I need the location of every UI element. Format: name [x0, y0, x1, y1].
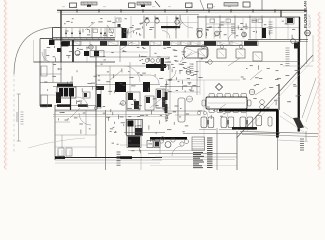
- svg-text:SCALE: 1/4": SCALE: 1/4": [309, 15, 312, 28]
- svg-text:FLOOR PLAN: FLOOR PLAN: [303, 1, 308, 28]
